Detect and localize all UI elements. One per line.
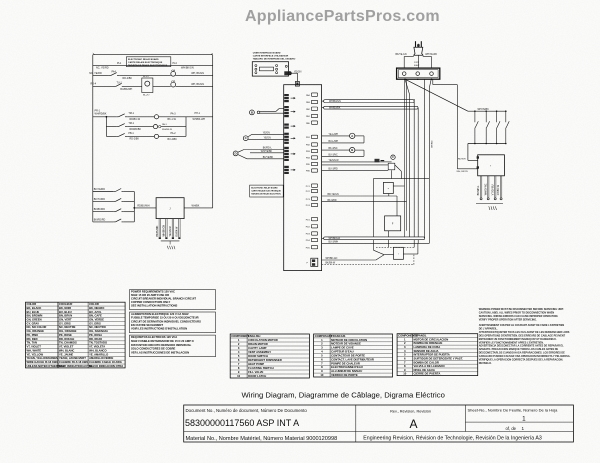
svg-text:BK/TU/RD: BK/TU/RD	[94, 198, 105, 201]
svg-text:WH, BK/GN: WH, BK/GN	[191, 72, 204, 75]
svg-text:DOOR SWITCH: DOOR SWITCH	[248, 354, 268, 358]
electronic relay board label (center)	[250, 185, 284, 197]
svg-text:BU-2/BK: BU-2/BK	[168, 138, 178, 141]
svg-text:10: 10	[403, 372, 407, 376]
wire	[176, 72, 213, 75]
svg-text:WH/BK-W: WH/BK-W	[162, 129, 173, 131]
svg-text:SURTIDOR DE DETERGENTE Y PAST.: SURTIDOR DE DETERGENTE Y PAST.	[414, 356, 464, 360]
svg-text:POMPE DE CHALEUR: POMPE DE CHALEUR	[331, 361, 360, 365]
note box (power requirements EN)	[130, 290, 216, 310]
svg-text:RD-4: RD-4	[91, 83, 97, 86]
relay K7 (PB2)	[306, 143, 318, 147]
svg-text:1: 1	[522, 426, 525, 431]
title block: document number cell	[185, 408, 307, 428]
svg-text:TABLERO DE INTERFASE DEL USUAR: TABLERO DE INTERFASE DEL USUARIO	[253, 57, 296, 60]
svg-text:VERROU DE PORTE: VERROU DE PORTE	[331, 373, 358, 377]
svg-text:BK/WH-L: BK/WH-L	[478, 185, 480, 195]
svg-text:BK/BU/RD: BK/BU/RD	[157, 225, 159, 236]
svg-text:PK, ROSE: PK, ROSE	[59, 333, 72, 337]
svg-text:60HZ FUSIBLE RETARDADOR DE 15: 60HZ FUSIBLE RETARDADOR DE 15 O 20 AMP O	[131, 339, 194, 343]
svg-text:BU, AZUL: BU, AZUL	[89, 310, 102, 314]
wire rail v5	[424, 79, 426, 238]
svg-text:CAVITY LAMP: CAVITY LAMP	[248, 346, 267, 350]
svg-text:CAPTEUR D'EAU: CAPTEUR D'EAU	[331, 350, 354, 354]
electronic relay board U1 outline	[284, 85, 322, 271]
wire BU-3	[322, 168, 392, 178]
switch PA4 with lamp circuit row 2	[89, 71, 171, 80]
connector block P3 on board left edge	[284, 124, 295, 129]
svg-text:GY, GRAY: GY, GRAY	[27, 321, 40, 325]
svg-text:WH/BU: WH/BU	[432, 140, 434, 148]
svg-text:RD/WH: RD/WH	[458, 158, 466, 160]
pin 2 of H1	[485, 176, 489, 200]
relay board outline (left circuit border)	[93, 53, 213, 222]
svg-text:RD-2/BK: RD-2/BK	[130, 138, 140, 141]
motor M2	[153, 123, 172, 131]
wire return from A	[322, 136, 364, 143]
svg-text:BU/BK-W: BU/BK-W	[177, 226, 179, 237]
wire dashed y247	[376, 246, 414, 248]
color code legend table	[26, 302, 126, 368]
note box (power requirements FR)	[130, 312, 216, 333]
svg-text:SENSOR DE AGUA: SENSOR DE AGUA	[414, 349, 439, 353]
callout C (circle)	[391, 155, 395, 159]
svg-text:WH, BK/YE: WH, BK/YE	[457, 171, 469, 173]
switch PB-1	[116, 132, 154, 141]
heater H1 connector box	[477, 155, 505, 176]
svg-text:CONTACTEUR DE PORTE: CONTACTEUR DE PORTE	[331, 353, 365, 357]
svg-text:BK/YE/RD: BK/YE/RD	[94, 188, 105, 191]
svg-text:USER INTERFACE BOARD: USER INTERFACE BOARD	[253, 52, 281, 55]
wire switch bus	[133, 192, 135, 222]
switch S2 (BK/TU/RD)	[93, 198, 135, 202]
wire to valve B	[322, 148, 350, 150]
valve A	[350, 133, 355, 138]
svg-text:BU, BLUE: BU, BLUE	[27, 310, 40, 314]
thermostat B1 (boxed sensor)	[142, 76, 171, 97]
wire D3 output	[403, 243, 418, 254]
motor M3	[154, 134, 158, 138]
switch SW1 (drain bank)	[474, 110, 478, 144]
svg-text:NC, NEUTRE: NC, NEUTRE	[59, 325, 76, 329]
svg-text:BK, NOIR: BK, NOIR	[59, 306, 71, 310]
wire capsule3 drop to funnel	[373, 240, 375, 251]
relay K15 (PC4)	[306, 203, 318, 207]
svg-text:YE/GN-W: YE/GN-W	[170, 226, 172, 237]
title block table	[184, 405, 574, 442]
svg-text:NC, YE/RD: NC, YE/RD	[89, 72, 102, 75]
svg-text:CARTE INTERFACE UTILISATEUR: CARTE INTERFACE UTILISATEUR	[253, 55, 289, 58]
svg-text:MOTEUR DE CIRCULATION: MOTEUR DE CIRCULATION	[331, 338, 367, 342]
title block: sheet number cell	[468, 407, 559, 431]
wire dashed BK/BK-W	[322, 255, 414, 265]
svg-text:LAMPARA DE CUBA: LAMPARA DE CUBA	[414, 345, 441, 349]
component table (components EN)	[230, 334, 309, 378]
node P (board top connector)	[295, 82, 299, 87]
wire BR-YE/GN	[322, 194, 397, 216]
junction box D3	[394, 247, 404, 259]
svg-text:BK/BK-W: BK/BK-W	[326, 263, 337, 265]
svg-text:OG, ORANGE: OG, ORANGE	[27, 329, 45, 333]
svg-text:YE/GN: YE/GN	[263, 132, 270, 134]
wire	[161, 126, 186, 128]
svg-text:ELECTROVANNE D'EAU: ELECTROVANNE D'EAU	[331, 365, 363, 369]
svg-text:Engineering Revision, Révision: Engineering Revision, Révision de Techno…	[363, 436, 542, 442]
wire bus L1	[93, 65, 213, 69]
cable harness 3 (capsule)	[322, 237, 425, 240]
svg-text:BU-L/WH: BU-L/WH	[329, 141, 339, 143]
svg-text:CIRCULATION MOTOR: CIRCULATION MOTOR	[248, 338, 278, 342]
thermistor C with YE/GN leads	[243, 132, 284, 140]
wire	[159, 132, 186, 141]
svg-text:Document No., Numéro de docume: Document No., Numéro de document, Número…	[186, 408, 308, 413]
wire TB1 right circle to heater	[433, 79, 458, 169]
svg-text:PA-2: PA-2	[171, 132, 177, 135]
wire from connector P7	[322, 258, 376, 260]
svg-text:CONTACT. LAVE DISTRIBUTEUR: CONTACT. LAVE DISTRIBUTEUR	[331, 357, 374, 361]
svg-text:NIVEL DE AGUA: NIVEL DE AGUA	[414, 368, 435, 372]
svg-text:CALIBRE FILS 18 AWG: CALIBRE FILS 18 AWG	[59, 360, 88, 364]
relay K11 (PB6)	[306, 169, 318, 173]
dispenser box D2	[385, 216, 401, 231]
svg-text:PK, PINK: PK, PINK	[27, 333, 39, 337]
valve B	[350, 147, 355, 152]
svg-text:PA-1: PA-1	[162, 123, 167, 126]
svg-text:COMPONENT: COMPONENT	[231, 334, 249, 338]
svg-text:NC, NO COLOR: NC, NO COLOR	[27, 325, 47, 329]
svg-text:VOIR LES INSTRUCTIONS D'INSTAL: VOIR LES INSTRUCTIONS D'INSTALLATION	[131, 327, 187, 331]
wire thin y243	[322, 242, 430, 244]
wire diagonal TB1 to drain switches	[405, 79, 468, 111]
svg-text:BK/RD-L: BK/RD-L	[263, 148, 273, 150]
svg-text:10: 10	[237, 374, 241, 378]
connector J1 (relay board output block)	[156, 198, 184, 219]
wire switch-bank bottom bus	[458, 144, 506, 161]
svg-text:GN, VERDE: GN, VERDE	[89, 318, 104, 322]
pin 3 of J1	[170, 219, 174, 239]
svg-text:BI-VO: BI-VO	[143, 76, 149, 78]
svg-text:BN, CAFE: BN, CAFE	[89, 314, 102, 318]
wire box D1 to D2	[388, 194, 390, 197]
cable harness 2 (capsule)	[322, 106, 418, 109]
svg-text:ESPANOL: ESPANOL	[414, 334, 427, 338]
svg-text:NC, YE/RD: NC, YE/RD	[96, 67, 109, 70]
switch S1 (BK/YE/RD)	[93, 188, 135, 192]
svg-text:AppliancePartsPros.com: AppliancePartsPros.com	[245, 8, 440, 25]
thermal fuse F1	[375, 159, 385, 163]
svg-text:VT, VIOLETA: VT, VIOLETA	[89, 345, 105, 349]
connector B (circle pair)	[250, 109, 285, 115]
wire return from B	[322, 150, 364, 156]
svg-text:GY, GRIS: GY, GRIS	[59, 321, 71, 325]
door switch D	[233, 148, 284, 159]
svg-text:A: A	[409, 417, 417, 431]
svg-text:60HZ: 60HZ	[414, 65, 420, 67]
pin 4 of J1	[177, 219, 181, 239]
svg-text:FLOATING SWITCH: FLOATING SWITCH	[248, 366, 273, 370]
svg-text:VENT ASSEMBLY: VENT ASSEMBLY	[248, 350, 271, 354]
relay K16 (PD1)	[306, 217, 318, 221]
svg-text:YE/GN-W: YE/GN-W	[329, 160, 340, 162]
svg-text:ELECTRONIC RELAY BOARD: ELECTRONIC RELAY BOARD	[251, 187, 278, 190]
relay K13 (PC2)	[306, 189, 318, 193]
svg-text:YE-L/WH: YE-L/WH	[329, 134, 339, 136]
svg-text:REQUISITOS ELECTRICOS 120 VCA: REQUISITOS ELECTRICOS 120 VCA	[131, 335, 177, 339]
relay board label box	[126, 57, 170, 67]
relay K10 (PB5)	[306, 162, 318, 166]
power plug P1	[414, 41, 423, 55]
svg-text:of, de: of, de	[506, 426, 517, 431]
svg-text:YE, JAUNE: YE, JAUNE	[59, 352, 73, 356]
svg-text:RD-2/BK: RD-2/BK	[123, 77, 133, 80]
wire with chamfer	[322, 165, 402, 179]
svg-text:COLOR: COLOR	[27, 302, 37, 306]
user interface board label	[253, 52, 296, 61]
svg-text:VERIFY PROPER OPERATION AFTER: VERIFY PROPER OPERATION AFTER SERVICING.	[479, 318, 537, 321]
pin 1 of J1	[157, 219, 161, 239]
svg-text:CARTE RELAIS ELECTRONIQUE: CARTE RELAIS ELECTRONIQUE	[251, 190, 281, 193]
relay K18 (PD3)	[306, 232, 318, 236]
svg-text:VT/GY-BU: VT/GY-BU	[492, 184, 494, 195]
svg-text:1: 1	[522, 416, 526, 423]
inline connector	[388, 163, 395, 170]
svg-text:COLOR: COLOR	[89, 302, 99, 306]
relay K4 (PA1)	[306, 114, 318, 118]
svg-text:120V: 120V	[414, 62, 420, 64]
svg-text:RD, ROUGE: RD, ROUGE	[59, 337, 74, 341]
svg-text:MOTOR DE CIRCULACION: MOTOR DE CIRCULACION	[414, 337, 449, 341]
switch TM-2	[116, 122, 153, 131]
wire	[159, 112, 186, 121]
svg-text:PA-3: PA-3	[171, 112, 177, 115]
svg-text:BK/YE-GN: BK/YE-GN	[396, 54, 407, 56]
svg-text:FILL VALVE: FILL VALVE	[248, 370, 263, 374]
svg-text:BK/BK/RD: BK/BK/RD	[94, 208, 105, 211]
svg-text:OG, ORANGE: OG, ORANGE	[59, 329, 77, 333]
svg-text:TU-1: TU-1	[117, 81, 123, 84]
pin 3 of H1	[492, 176, 496, 200]
svg-text:ENGLISH: ENGLISH	[248, 334, 260, 338]
wire YE/GN from UI board	[291, 70, 301, 81]
svg-text:POWER REQUIREMENTS 120 VAC: POWER REQUIREMENTS 120 VAC	[131, 290, 175, 294]
wire output	[184, 204, 213, 208]
wire to connector J1	[133, 204, 156, 209]
svg-text:PK, ROSA: PK, ROSA	[89, 333, 102, 337]
dispenser box D1	[383, 182, 404, 193]
relay K12 (PC1)	[306, 184, 318, 188]
svg-text:CIERRE DE PUERTA: CIERRE DE PUERTA	[414, 372, 441, 376]
svg-text:WH/BK-GN: WH/BK-GN	[326, 258, 338, 260]
svg-text:WH/BK/GN: WH/BK/GN	[181, 67, 194, 70]
svg-text:ALIMENTATION ELECTRIQUE 120 V: ALIMENTATION ELECTRIQUE 120 V CA 60HZ	[131, 312, 189, 316]
relay K6 (PB1)	[306, 135, 318, 139]
cable harness 1 (capsule)	[322, 100, 415, 103]
svg-text:GN, GREEN: GN, GREEN	[27, 318, 42, 322]
ground (heater)	[476, 203, 503, 210]
relay K3 (PA2)	[306, 107, 318, 111]
connector block P5 on board left edge	[284, 147, 295, 161]
svg-text:BOMBA DE DRENAJE: BOMBA DE DRENAJE	[414, 341, 443, 345]
pin 1 of H1	[478, 176, 482, 200]
svg-text:PL4: PL4	[173, 62, 178, 65]
svg-text:Sheet-No., Nombre De Feuille,: Sheet-No., Nombre De Feuille, Número De …	[468, 407, 559, 412]
svg-text:60HZ 15 OR 20 AMP FUSE OR: 60HZ 15 OR 20 AMP FUSE OR	[131, 293, 169, 297]
svg-text:BN, BROWN: BN, BROWN	[27, 314, 43, 318]
wire BK-9/RD	[322, 200, 407, 202]
svg-text:Wiring Diagram, Diagramme de C: Wiring Diagram, Diagramme de Câblage, Di…	[242, 391, 445, 400]
svg-text:TN, TOSTADO: TN, TOSTADO	[89, 341, 107, 345]
svg-text:VT, VIOLET: VT, VIOLET	[27, 345, 42, 349]
svg-text:TN, CHAMOIS: TN, CHAMOIS	[59, 341, 77, 345]
svg-text:AMARILLO/VERDE: AMARILLO/VERDE	[89, 356, 113, 360]
svg-text:WH/BK/GN: WH/BK/GN	[164, 225, 166, 237]
wire rail v2	[406, 79, 408, 231]
svg-text:GY/BU-W: GY/BU-W	[498, 184, 500, 195]
connector block P1 on board left edge	[284, 94, 295, 102]
svg-text:10: 10	[320, 373, 324, 377]
svg-text:BK-9/RD: BK-9/RD	[328, 200, 337, 202]
svg-text:YE/GN, JAUNE/VERT: YE/GN, JAUNE/VERT	[59, 356, 86, 360]
svg-text:WH/RD/BK: WH/RD/BK	[95, 113, 107, 116]
wire heater lower feed	[457, 169, 478, 173]
svg-text:CIRCUIT BREAKER INDIVIDUAL BRA: CIRCUIT BREAKER INDIVIDUAL BRANCH CIRCUI…	[131, 297, 196, 301]
connector block P6 on board left edge	[284, 166, 295, 174]
connector block P4 on board left edge	[284, 133, 295, 144]
svg-text:WH/BU/GN: WH/BU/GN	[329, 101, 341, 103]
svg-text:CIRCUIT DE DERIVATION INDIVIDU: CIRCUIT DE DERIVATION INDIVIDUEL CONDUCT…	[131, 319, 201, 323]
svg-text:BK/RD/RD: BK/RD/RD	[94, 218, 106, 221]
svg-text:SAUF INDICATION AUTRE: SAUF INDICATION AUTRE	[59, 364, 93, 368]
svg-text:DRAIN MOTOR: DRAIN MOTOR	[248, 342, 268, 346]
svg-text:BL-2O: BL-2O	[143, 94, 150, 96]
relay K8 (PB3)	[306, 149, 318, 153]
connector P7 (board bottom right)	[307, 258, 318, 266]
wire diagonal TB1 crossing	[405, 79, 410, 237]
svg-text:PA4: PA4	[112, 71, 117, 74]
svg-text:TARJETA DE RELES ELECTRON.: TARJETA DE RELES ELECTRON.	[251, 193, 281, 196]
svg-text:VT, VIOLET: VT, VIOLET	[59, 345, 74, 349]
relay K2 (PA3)	[306, 100, 318, 104]
terminal block TB1	[397, 68, 440, 80]
svg-text:DETERGENT DISPENSER: DETERGENT DISPENSER	[248, 358, 282, 362]
svg-text:RD/RD/BK: RD/RD/BK	[130, 128, 142, 131]
svg-text:COMPOSANT: COMPOSANT	[315, 334, 333, 338]
warning note FR	[479, 324, 570, 344]
svg-text:BU, BLEU: BU, BLEU	[59, 310, 72, 314]
svg-text:WH/BK: WH/BK	[192, 204, 200, 207]
relay K19 (PD4)	[306, 238, 318, 242]
relay K1 (PA4)	[306, 93, 318, 97]
connector block P2 on board left edge	[284, 106, 295, 117]
wire YE/GN-W	[322, 160, 392, 162]
svg-text:PH-1: PH-1	[195, 112, 201, 115]
relay K20 (PD5)	[306, 245, 318, 249]
wire	[176, 83, 213, 86]
svg-text:BK/YE/BK: BK/YE/BK	[263, 157, 274, 159]
title block: rev cell	[390, 409, 431, 431]
wire rail v4 (from cable 2)	[417, 108, 419, 244]
svg-text:VALVULA DE LLENADO: VALVULA DE LLENADO	[414, 364, 446, 368]
pin 2 of J1	[164, 219, 168, 239]
wire junction bus	[93, 116, 116, 136]
svg-text:EN CUIVRE SEULEMENT: EN CUIVRE SEULEMENT	[131, 323, 163, 327]
svg-text:PB-1: PB-1	[128, 132, 134, 135]
svg-text:Rev., Révision, Revisión: Rev., Révision, Revisión	[390, 409, 431, 413]
wire right bus	[186, 112, 213, 136]
relay K14 (PC3)	[306, 197, 318, 201]
warning note EN	[479, 308, 564, 322]
svg-text:YE/GN: YE/GN	[264, 138, 271, 140]
relay K5 (PA5)	[306, 121, 318, 125]
component table (components ES)	[397, 334, 478, 376]
svg-text:REVISELO.: REVISELO.	[479, 362, 492, 365]
svg-text:BN, BRUN: BN, BRUN	[59, 314, 72, 318]
svg-text:WH/BU/BK: WH/BU/BK	[329, 108, 341, 110]
node PR-1 label	[95, 109, 107, 115]
connector CN1 on UI board	[284, 71, 291, 75]
svg-text:ELECTRONIC RELAY BOARD: ELECTRONIC RELAY BOARD	[128, 58, 159, 61]
svg-text:NC, NEUTRO: NC, NEUTRO	[89, 325, 106, 329]
pin 4 of H1	[498, 176, 502, 200]
svg-text:COULEUR: COULEUR	[59, 302, 72, 306]
user interface board U2	[252, 62, 288, 76]
svg-text:BU-3/RD: BU-3/RD	[329, 168, 339, 170]
svg-text:58300000117560 ASP INT A: 58300000117560 ASP INT A	[185, 418, 299, 428]
svg-text:BU/BK/WH: BU/BK/WH	[120, 88, 132, 91]
component table (components FR)	[314, 334, 393, 377]
svg-text:RD, ROJO: RD, ROJO	[89, 337, 102, 341]
harness top edge	[373, 179, 429, 239]
svg-text:RD, RED: RD, RED	[27, 337, 38, 341]
switch SW2 (drain bank)	[485, 110, 489, 144]
svg-text:VER LAS INSTRUCCIONES DE INSTA: VER LAS INSTRUCCIONES DE INSTALACION	[131, 350, 189, 354]
lamp L2	[171, 80, 176, 87]
svg-text:RD/BU/WH: RD/BU/WH	[137, 204, 149, 207]
svg-text:TM-1: TM-1	[128, 122, 134, 125]
wire D2 to D3	[388, 231, 390, 248]
svg-text:BR-YE/GN: BR-YE/GN	[328, 194, 339, 196]
svg-text:BK, BLACK: BK, BLACK	[27, 306, 42, 310]
ground (left circuit)	[161, 241, 180, 249]
svg-text:WH/YE/BK: WH/YE/BK	[478, 109, 490, 111]
svg-text:ALLUMEUR DE NIVEAU: ALLUMEUR DE NIVEAU	[331, 369, 362, 373]
svg-text:FRANCAIS: FRANCAIS	[331, 334, 345, 338]
svg-text:TN, TAN: TN, TAN	[27, 341, 37, 345]
svg-text:WH, BLANCO: WH, BLANCO	[89, 348, 106, 352]
svg-text:GN, VERT: GN, VERT	[59, 318, 72, 322]
svg-text:BK-1-W: BK-1-W	[168, 118, 177, 121]
svg-text:WH, BK/GN: WH, BK/GN	[191, 83, 204, 86]
svg-text:INTERRUPTOR DE PUERTA: INTERRUPTOR DE PUERTA	[414, 353, 450, 357]
svg-text:TM-1: TM-1	[128, 112, 134, 115]
svg-text:WH/BK-WH: WH/BK-WH	[193, 118, 206, 121]
svg-text:WH/GY-NC: WH/GY-NC	[485, 183, 487, 195]
svg-text:PL1: PL1	[117, 62, 122, 65]
relay K17 (PD2)	[306, 225, 318, 229]
wire funnel merge	[374, 250, 394, 260]
switch SW4 (drain bank)	[505, 110, 509, 144]
svg-text:FUSIBLE TEMPORISE 15 OU 20 A O: FUSIBLE TEMPORISE 15 OU 20 A OU DISJONCT…	[131, 316, 199, 320]
svg-text:COPPER CONDUCTORS ONLY: COPPER CONDUCTORS ONLY	[131, 300, 170, 304]
svg-text:WIRE GAUGE IS 18 AWG: WIRE GAUGE IS 18 AWG	[27, 360, 59, 364]
svg-text:BU-3/WH: BU-3/WH	[329, 242, 339, 244]
switch TM-1	[116, 112, 154, 121]
svg-text:CARTE RELAIS ELECTRONIQUE: CARTE RELAIS ELECTRONIQUE	[128, 61, 163, 64]
svg-text:YE, YELLOW: YE, YELLOW	[27, 352, 44, 356]
svg-text:WH/YE-RD: WH/YE-RD	[425, 54, 437, 56]
wire plug left lead BK	[396, 54, 414, 68]
switch TU1 row 3	[91, 81, 142, 91]
